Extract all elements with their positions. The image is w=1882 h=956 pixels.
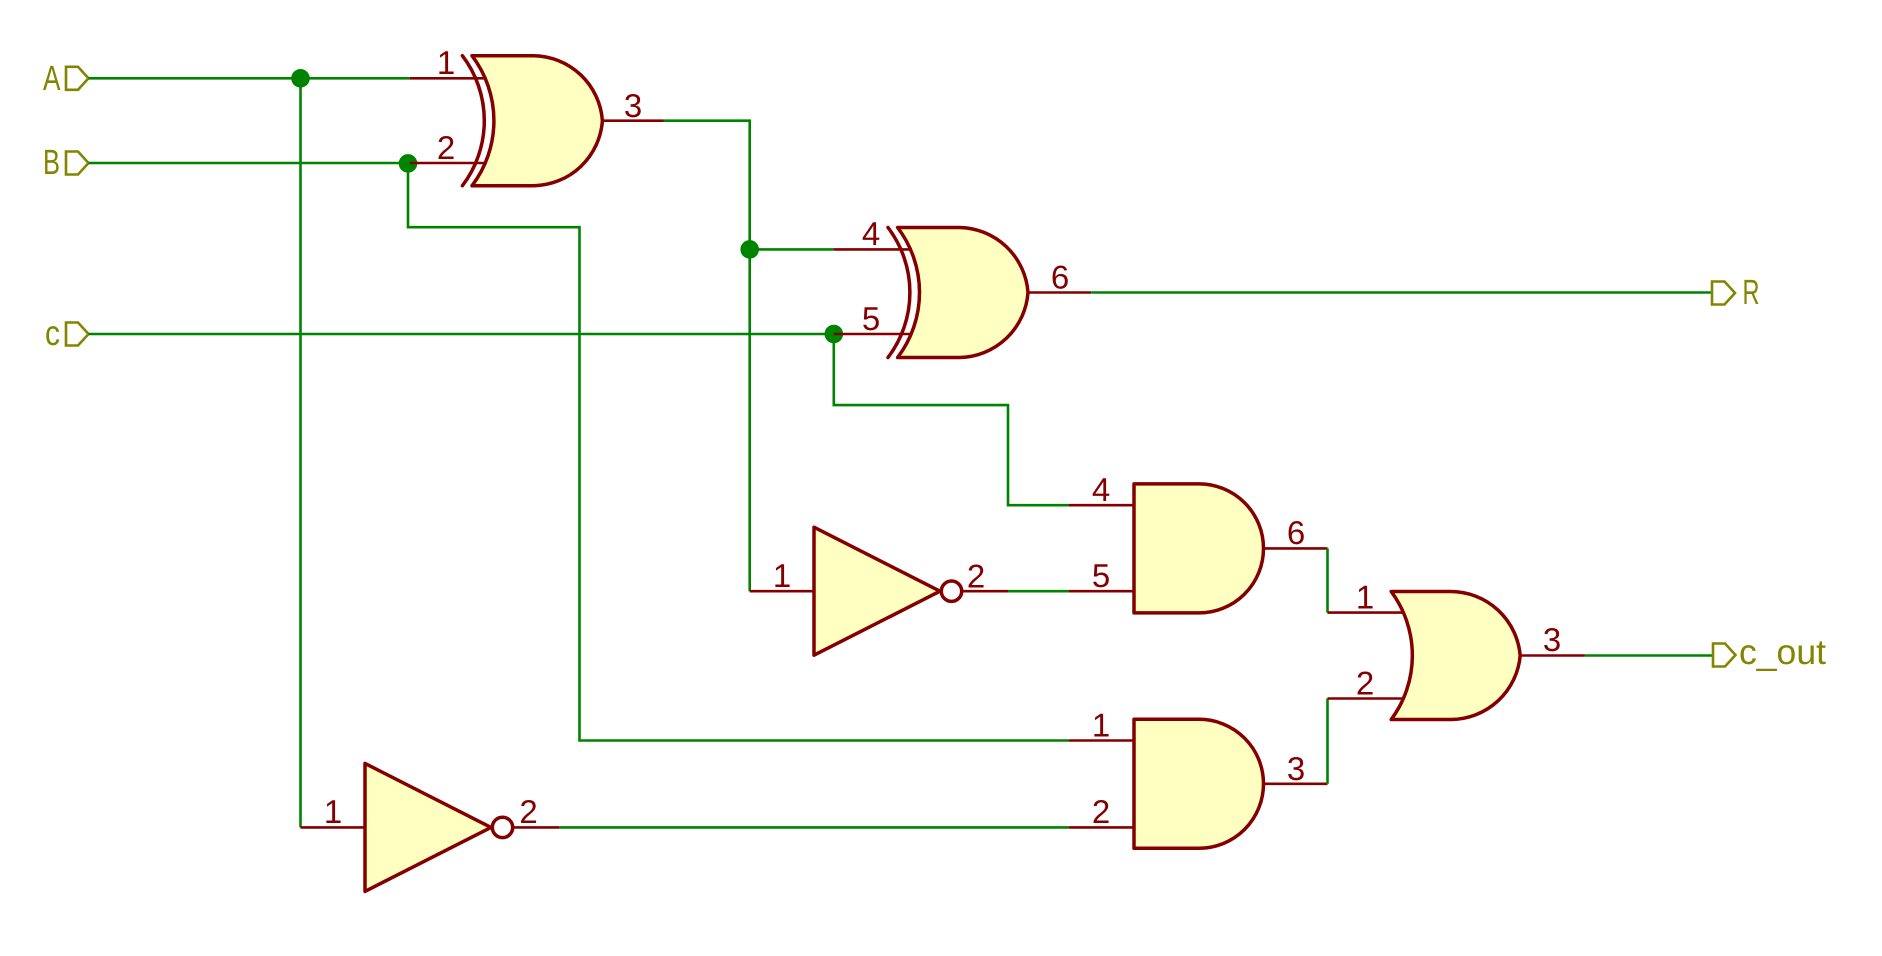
U7 pin 1 <box>301 826 366 829</box>
wire U7 out to AND2 pin2 <box>559 826 1068 829</box>
svg-text:1: 1 <box>437 44 455 81</box>
U2 pin 4 <box>834 248 912 251</box>
U2 pin 6 output <box>1028 291 1091 294</box>
wire U4 out to OR pin1 <box>1326 548 1329 612</box>
svg-text:2: 2 <box>967 558 985 595</box>
and-gate U4 body <box>1134 484 1264 613</box>
wire U3 out to AND1 pin5 <box>1008 590 1069 593</box>
port B connector <box>66 152 89 175</box>
U7 pin 2 output <box>514 826 559 829</box>
svg-text:1: 1 <box>1092 707 1110 744</box>
svg-text:2: 2 <box>519 793 537 830</box>
svg-text:1: 1 <box>1356 579 1374 616</box>
wire net B branch to AND2 pin 1 <box>408 163 1069 741</box>
wire U1 out to XOR2 and NOT1 <box>664 121 750 592</box>
node junction c <box>825 325 844 344</box>
svg-text:1: 1 <box>773 557 791 594</box>
xor-gate U2 body <box>888 228 1028 358</box>
port A connector <box>66 67 89 90</box>
U6 pin 1 <box>1328 611 1403 614</box>
wire net c branch to AND1 pin 4 <box>834 334 1069 505</box>
wire U6 out to port c_out <box>1585 654 1713 657</box>
svg-text:1: 1 <box>324 793 342 830</box>
svg-text:3: 3 <box>1543 621 1561 658</box>
svg-text:c_out: c_out <box>1739 633 1826 672</box>
U6 pin 2 <box>1328 697 1403 700</box>
svg-text:5: 5 <box>1092 557 1110 594</box>
svg-text:B: B <box>43 143 60 182</box>
svg-text:c: c <box>45 314 60 353</box>
wire U2 out to port R <box>1091 291 1711 294</box>
not-gate U7 body <box>365 763 513 891</box>
and-gate U5 body <box>1134 719 1264 848</box>
port R connector <box>1712 282 1735 305</box>
svg-text:A: A <box>43 59 61 98</box>
U3 pin 2 output <box>963 590 1008 593</box>
U5 pin 1 <box>1069 739 1134 742</box>
node junction A <box>291 69 310 88</box>
U4 pin 4 <box>1069 504 1134 507</box>
svg-text:3: 3 <box>1287 750 1305 787</box>
U1 pin 1 <box>410 77 486 80</box>
U3 pin 1 <box>750 590 814 593</box>
svg-text:2: 2 <box>1356 665 1374 702</box>
xor-gate U1 body <box>462 56 602 186</box>
port c connector <box>66 323 89 346</box>
svg-text:6: 6 <box>1287 514 1305 551</box>
or-gate U6 body <box>1391 592 1520 720</box>
U5 pin 2 <box>1069 826 1134 829</box>
wire U5 out to OR pin2 <box>1326 699 1329 784</box>
wire junction to XOR2 pin4 <box>750 248 834 251</box>
U1 pin 2 <box>410 162 486 165</box>
U5 pin 3 output <box>1264 782 1328 785</box>
U1 pin 3 output <box>602 119 663 122</box>
svg-text:4: 4 <box>1092 471 1110 508</box>
wire net c horizontal <box>89 333 834 336</box>
svg-text:2: 2 <box>1092 793 1110 830</box>
U2 pin 5 <box>834 333 912 336</box>
svg-text:5: 5 <box>862 300 880 337</box>
svg-text:R: R <box>1743 273 1760 312</box>
U4 pin 5 <box>1069 590 1134 593</box>
U4 pin 6 output <box>1264 547 1328 550</box>
wire net A horizontal <box>89 77 410 80</box>
port c_out connector <box>1713 644 1736 667</box>
wire net A vertical branch to NOT2 <box>299 78 302 827</box>
not-gate U3 body <box>814 527 962 655</box>
node junction B <box>399 154 418 173</box>
svg-text:6: 6 <box>1051 259 1069 296</box>
U6 pin 3 output <box>1520 654 1584 657</box>
svg-text:4: 4 <box>862 215 880 252</box>
wire net B horizontal <box>89 162 410 165</box>
node junction XOR1 out <box>740 240 759 259</box>
svg-text:3: 3 <box>624 87 642 124</box>
svg-text:2: 2 <box>437 129 455 166</box>
